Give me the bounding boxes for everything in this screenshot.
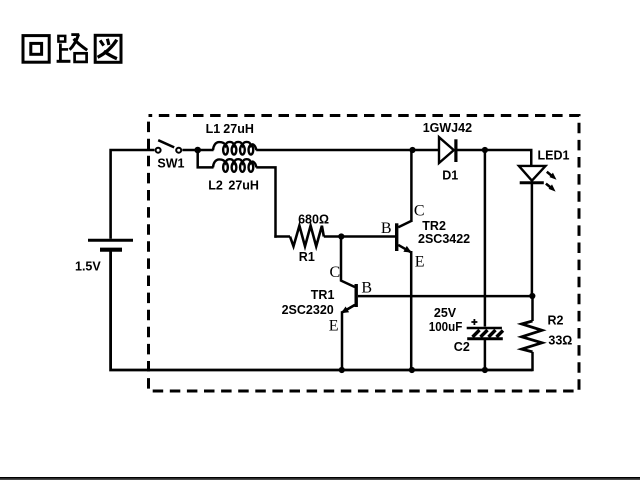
svg-text:R2: R2 [548,314,564,328]
svg-text:B: B [381,220,392,237]
svg-text:C: C [330,264,341,281]
svg-text:27uH: 27uH [228,179,259,193]
svg-text:E: E [329,317,339,334]
svg-text:R1: R1 [299,250,315,264]
svg-text:C2: C2 [454,340,470,354]
svg-text:33Ω: 33Ω [548,333,572,347]
svg-text:1GWJ42: 1GWJ42 [423,121,472,135]
svg-text:B: B [361,279,372,296]
svg-text:L1: L1 [206,122,221,136]
svg-text:TR1: TR1 [311,288,335,302]
svg-text:LED1: LED1 [538,149,570,163]
svg-text:D1: D1 [442,168,458,182]
svg-text:25V: 25V [434,306,457,320]
svg-text:E: E [415,254,425,271]
svg-text:680Ω: 680Ω [298,213,329,227]
svg-text:1.5V: 1.5V [75,259,101,273]
svg-text:2SC3422: 2SC3422 [418,232,470,246]
svg-text:27uH: 27uH [223,122,254,136]
svg-text:L2: L2 [208,179,223,193]
svg-text:2SC2320: 2SC2320 [282,303,334,317]
svg-text:C: C [414,203,425,220]
svg-text:100uF: 100uF [429,320,463,334]
svg-text:SW1: SW1 [157,157,184,171]
